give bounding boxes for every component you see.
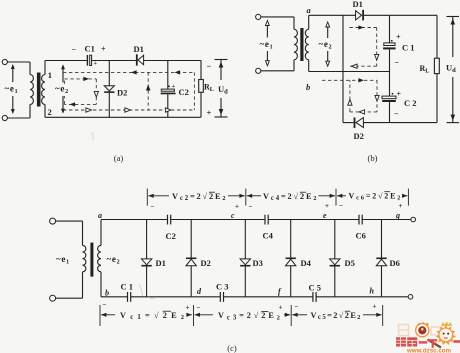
wire D2 branch lower (a) [108, 92, 110, 117]
wire bottom rail segment C5-h (c) [316, 296, 408, 298]
wire C1 to b rail (b) [389, 49, 391, 96]
wire top rail left (a) [45, 60, 87, 62]
svg-text:C 1: C 1 [402, 43, 415, 53]
wire [29, 105, 31, 119]
svg-text:−: − [72, 45, 77, 54]
diode D3 (c) [240, 220, 250, 297]
wire top rail D1 to right (b) [364, 14, 437, 16]
svg-text:D2: D2 [354, 131, 364, 141]
svg-text:−: − [151, 203, 155, 211]
capacitor C2 (c) [168, 215, 171, 225]
svg-text:+: + [396, 33, 401, 42]
transformer T3 (c) primary winding [83, 245, 86, 271]
transformer T2 (b) primary winding [294, 29, 297, 60]
input terminal bottom (c) [50, 295, 56, 301]
wire secondary to box (a) [44, 61, 46, 118]
wire top rail segment a-C2 (c) [101, 219, 167, 221]
output voltage Ud indicator (a) [215, 60, 228, 118]
wire [7, 117, 30, 119]
dimension tick Vc3/Vc5 (c) [290, 305, 292, 326]
wire right rail top (a) [200, 61, 202, 80]
svg-text:+: + [325, 202, 329, 210]
svg-text:+: + [397, 90, 402, 99]
input terminal top (a) [2, 59, 7, 64]
svg-text:C 2: C 2 [404, 98, 417, 108]
diode D1 (c) [141, 220, 151, 297]
polarity signs bottom dimensions (c) [103, 301, 377, 312]
wire D2 branch upper (a) [108, 61, 110, 86]
svg-text:C6: C6 [356, 231, 366, 241]
dashed current path middle vertical (a) [146, 72, 151, 110]
wire top rail segment C2-C4 (c) [171, 219, 265, 221]
wire secondary top to rail (b) [308, 15, 310, 29]
wire top rail segment C6-g (c) [362, 219, 411, 221]
svg-text:C4: C4 [263, 231, 274, 241]
wire right rail top (b) [436, 15, 438, 58]
capacitor C6 (c) [359, 215, 362, 225]
wire C2 branch upper (a) [167, 61, 169, 90]
diode D6 (c) [376, 220, 386, 297]
wire C2 to bottom rail (b) [389, 102, 391, 123]
label C2 + (b) [392, 90, 417, 119]
transformer T1 (a) primary winding [30, 75, 33, 105]
svg-text:www.dzsc.com: www.dzsc.com [406, 348, 452, 353]
wire bottom rail right (b) [363, 122, 437, 124]
capacitor C1 (a) [87, 55, 91, 66]
svg-text:−: − [394, 110, 399, 119]
dimension tick Vc4/Vc6 (c) [335, 189, 337, 206]
source e1 arrow (b) [265, 21, 269, 66]
source e2 arrow (a) [61, 64, 65, 114]
transformer T2 (b) core [300, 28, 303, 61]
source e1 arrow (a) [11, 64, 15, 114]
svg-text:+: + [207, 108, 212, 118]
svg-text:+: + [94, 61, 98, 67]
svg-text:c: c [231, 211, 235, 220]
transformer T1 (a) core [37, 73, 41, 107]
transformer T3 (c) core [90, 243, 93, 277]
wire secondary bottom to b rail (b) [308, 60, 310, 72]
svg-text:1: 1 [48, 70, 52, 80]
wire [7, 61, 30, 63]
dimension tick Vc2 left (c) [146, 189, 148, 206]
dimension tick Vc1/Vc3 (c) [193, 305, 195, 326]
dimension arrows Vc4 (c) [247, 194, 335, 198]
watermark red characters [396, 337, 460, 348]
wire secondary to rails (c) [100, 220, 102, 297]
output terminal top (c) [411, 217, 416, 222]
svg-text:D4: D4 [301, 258, 312, 268]
output voltage Ud indicator (b) [447, 17, 460, 123]
dimension arrows Vc1 (c) [101, 313, 192, 317]
svg-text:−: − [249, 203, 253, 211]
svg-text:+: + [373, 303, 377, 311]
svg-text:+: + [235, 203, 239, 211]
transformer T3 (c) secondary winding [98, 245, 101, 271]
svg-text:−: − [295, 303, 299, 311]
svg-text:g: g [395, 211, 400, 220]
wire [82, 221, 84, 245]
input terminal bottom (b) [256, 68, 261, 73]
wire top rail right (a) [144, 60, 201, 62]
polarity signs top dimensions (c) [151, 202, 403, 211]
svg-text:b: b [306, 82, 310, 92]
wire [261, 70, 294, 72]
svg-text:+: + [279, 304, 283, 312]
dimension tick Vc2/Vc4 (c) [245, 189, 247, 206]
dimension arrows Vc3 (c) [195, 313, 291, 317]
svg-text:(c): (c) [227, 343, 237, 353]
svg-text:2: 2 [48, 107, 52, 117]
wire b rail (b) [309, 71, 390, 73]
source e2 arrow (b) [326, 22, 330, 66]
watermark faint glyph [399, 325, 441, 336]
diode D5 (c) [330, 220, 340, 297]
input terminal top (c) [50, 218, 56, 224]
input terminal top (b) [256, 14, 261, 19]
dashed current path top (a) [63, 70, 194, 74]
dimension tick Vc1 left (c) [99, 305, 101, 326]
svg-text:C 1: C 1 [121, 282, 134, 292]
resistor RL (b) [434, 58, 439, 73]
wire [56, 220, 83, 222]
capacitor C4 (c) [265, 215, 268, 225]
diode D2 (a) [104, 86, 114, 92]
dimension arrows Vc2 (c) [148, 194, 245, 198]
capacitor C2 (a) [161, 89, 176, 94]
svg-text:(a): (a) [114, 153, 124, 163]
svg-text:D1: D1 [134, 44, 144, 54]
wire right rail bottom (b) [436, 74, 438, 123]
diode D2 (c) [186, 220, 196, 297]
transformer T2 (b) secondary winding [305, 29, 308, 60]
wire bottom rail segment C1-C3 (c) [131, 296, 220, 298]
wire bottom rail (a) [45, 116, 201, 118]
svg-text:D1: D1 [156, 258, 166, 268]
scan smudge [92, 132, 155, 299]
dimension arrows Vc6 (c) [337, 194, 407, 198]
svg-text:h: h [370, 287, 375, 296]
svg-text:−: − [103, 301, 107, 309]
diode D1 (b) [356, 10, 364, 21]
svg-text:C1: C1 [85, 44, 95, 54]
dashed current path bottom (a) [63, 108, 194, 112]
capacitor C1 (c) [128, 292, 131, 302]
capacitor C5 (c) [313, 292, 316, 302]
dashed loop 1 (b) [350, 25, 379, 68]
dashed current path right (a) [193, 72, 195, 110]
wire [56, 297, 83, 299]
dashed charge loop rectangle (a) [64, 77, 98, 107]
wire C1 branch top (b) [389, 15, 391, 43]
svg-text:−: − [395, 58, 400, 67]
input terminal bottom (a) [2, 115, 7, 120]
wire top rail mid (a) [92, 60, 136, 62]
output terminal bottom (c) [408, 295, 413, 300]
wire [82, 272, 84, 298]
capacitor C3 (c) [220, 292, 223, 302]
transformer T1 (a) secondary winding [42, 75, 45, 105]
svg-text:C 5: C 5 [309, 283, 322, 293]
wire bottom rail segment b-C1 (c) [101, 296, 127, 298]
wire [261, 16, 294, 18]
svg-text:−: − [207, 61, 212, 71]
diode D2 (b) [354, 117, 364, 128]
svg-text:+: + [399, 202, 403, 210]
svg-text:D2: D2 [201, 258, 211, 268]
wire top rail segment C4-C6 (c) [268, 219, 359, 221]
svg-text:D3: D3 [253, 258, 263, 268]
wire [293, 60, 295, 71]
wire [29, 62, 31, 75]
wire a branch vertical (b) [342, 15, 344, 122]
wire top rail a to D1 (b) [309, 14, 356, 16]
svg-text:−: − [197, 304, 201, 312]
svg-text:D1: D1 [353, 0, 363, 9]
resistor RL (a) [199, 80, 204, 93]
svg-text:a: a [98, 211, 102, 220]
svg-text:+: + [186, 304, 190, 312]
watermark mascot [428, 322, 456, 348]
svg-text:+: + [101, 45, 106, 54]
wire C2 branch lower (a) [167, 94, 169, 117]
diode D4 (c) [286, 220, 296, 297]
svg-text:−: − [339, 202, 343, 210]
watermark emblem [416, 322, 430, 337]
wire right rail bottom (a) [200, 92, 202, 117]
capacitor C1 (b) [383, 43, 396, 50]
svg-text:(b): (b) [368, 153, 378, 163]
label C2 + (a) [168, 83, 189, 97]
wire [293, 17, 295, 29]
dimension arrows Vc5 (c) [292, 313, 382, 317]
label C1 + (b) [391, 33, 415, 68]
capacitor C2 (b) [382, 96, 396, 102]
wire bottom rail segment C3-C5 (c) [224, 296, 313, 298]
dashed loop 2 (b) [322, 78, 379, 114]
wire bottom rail left (b) [343, 122, 354, 124]
label - C1 + [72, 44, 107, 67]
svg-text:D2: D2 [117, 88, 127, 98]
svg-text:b: b [105, 289, 109, 298]
svg-text:C2: C2 [179, 87, 189, 97]
svg-text:C2: C2 [166, 231, 176, 241]
dimension tick Vc6 right (c) [407, 189, 409, 206]
svg-text:D6: D6 [390, 258, 400, 268]
diode D1 (a) [136, 54, 144, 65]
svg-text:D5: D5 [345, 258, 355, 268]
svg-text:C 3: C 3 [216, 282, 229, 292]
svg-text:e: e [323, 211, 327, 220]
dimension tick Vc5 right (c) [382, 305, 384, 326]
svg-text:+: + [172, 83, 176, 90]
